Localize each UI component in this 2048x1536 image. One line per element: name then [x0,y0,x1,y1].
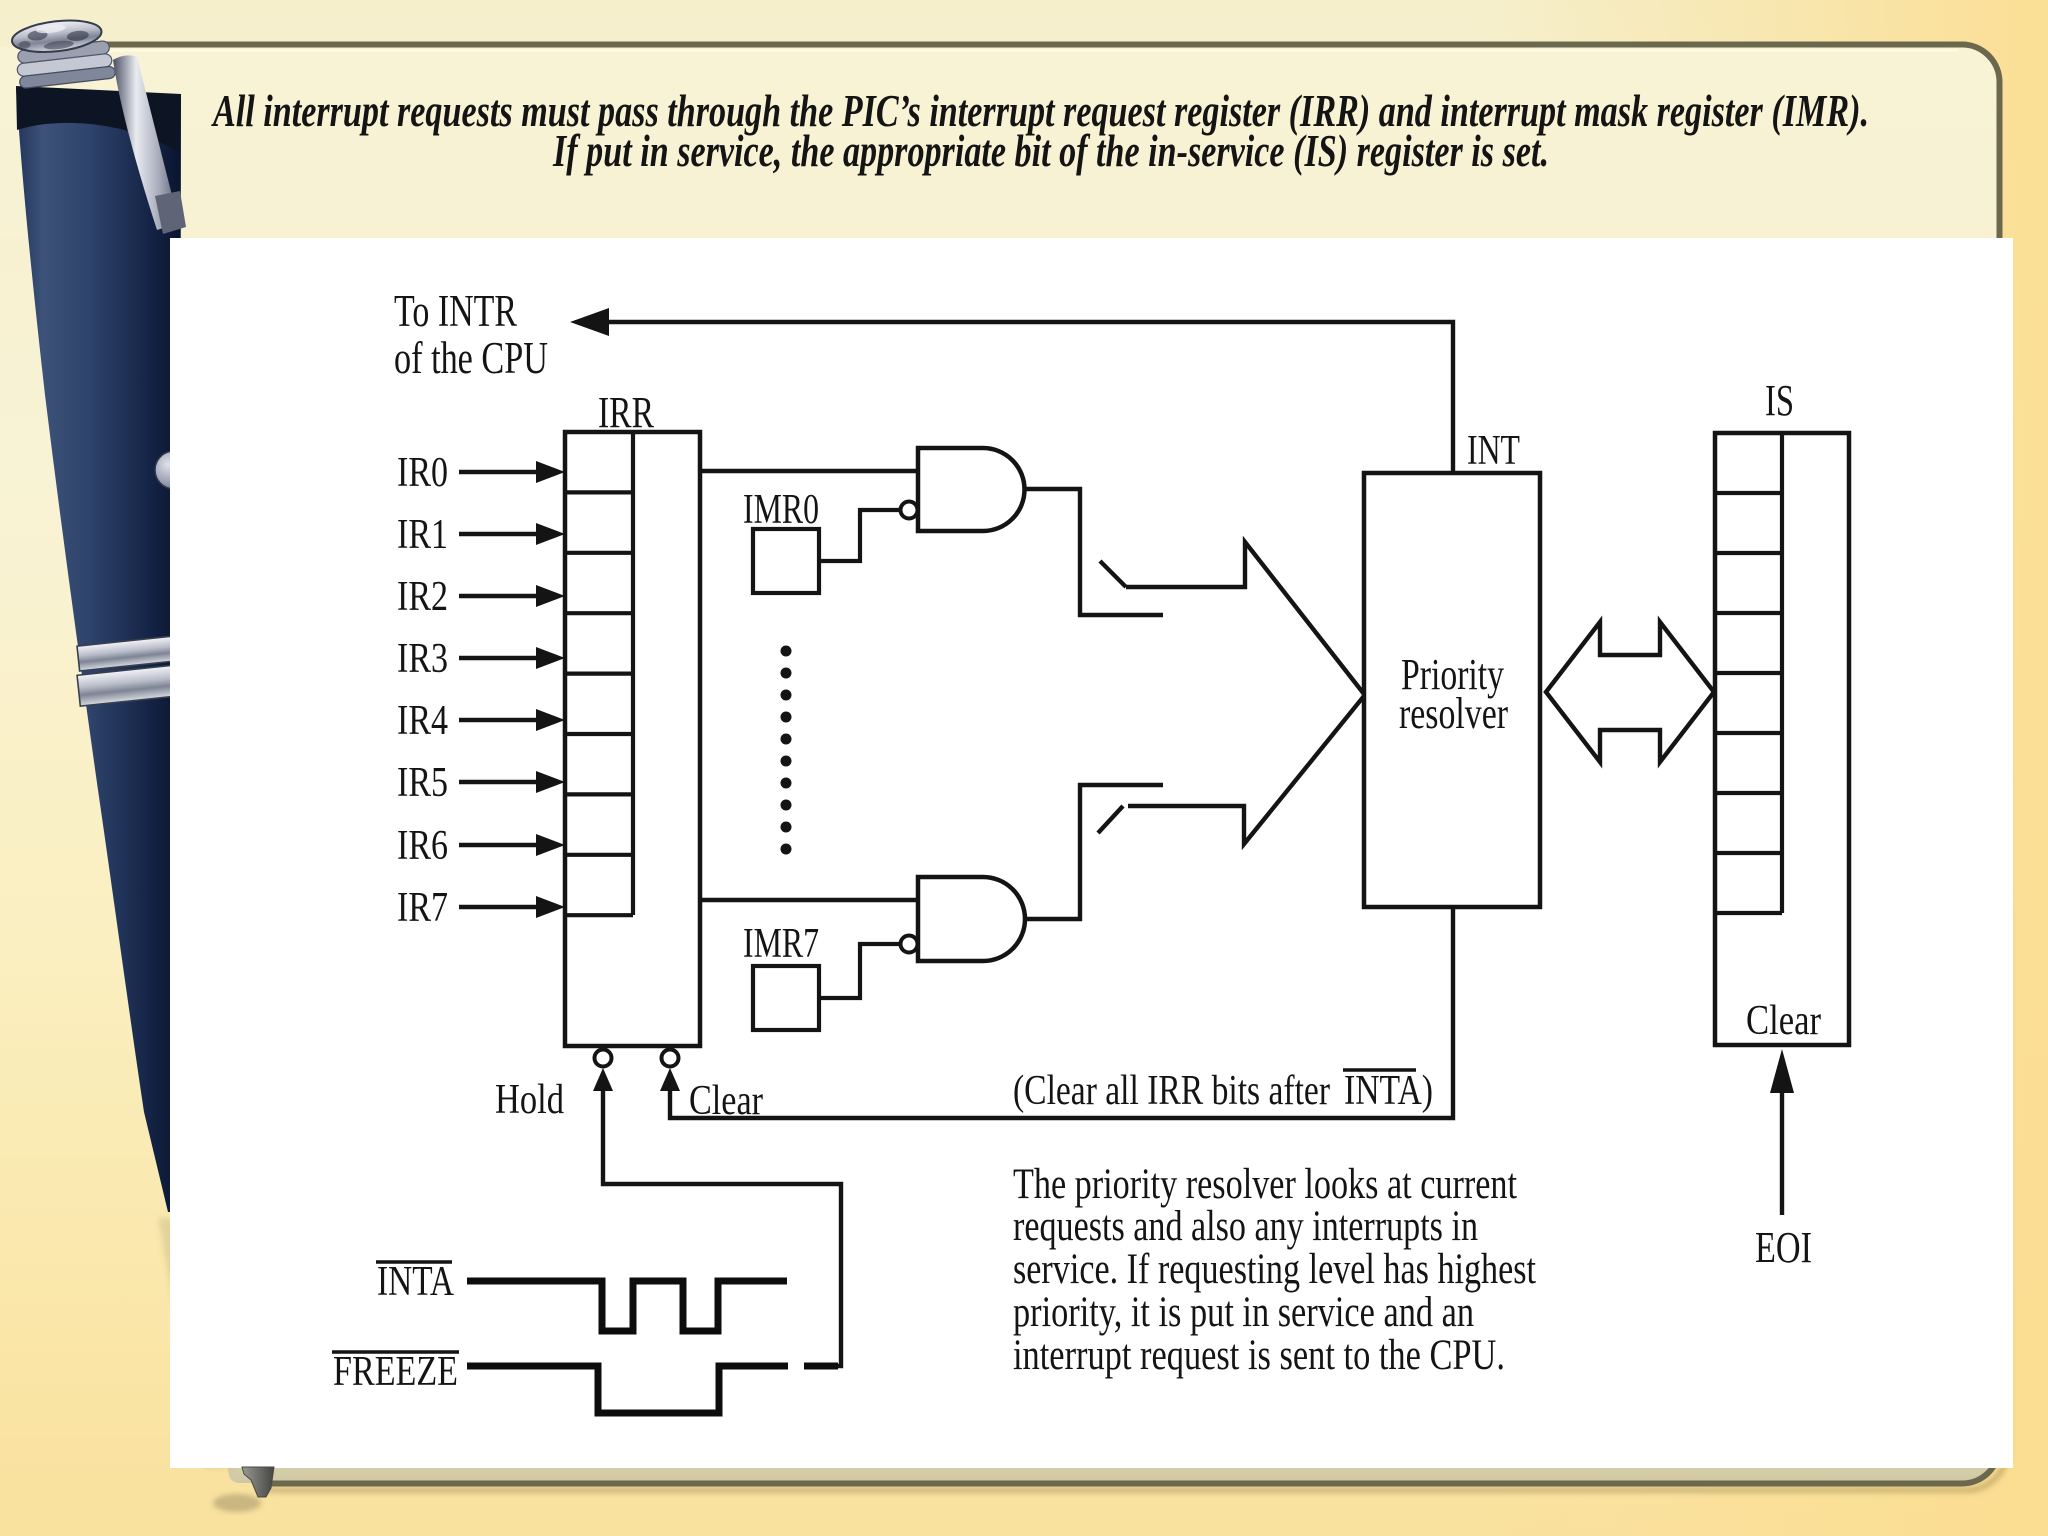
wire IR3 input [459,656,539,660]
svg-text:(Clear all IRR bits after: (Clear all IRR bits after [1013,1068,1330,1114]
AND gate U2 [918,877,1025,961]
svg-text:EOI: EOI [1755,1223,1812,1272]
white figure panel [170,238,2013,1468]
svg-text:INT: INT [1467,428,1520,474]
svg-text:of the CPU: of the CPU [394,333,548,383]
pen [10,15,193,1212]
wire IMR7 to bubble [819,944,900,998]
svg-text:If put in service, the appropr: If put in service, the appropriate bit o… [552,125,1549,176]
svg-text:FREEZE: FREEZE [333,1349,458,1395]
wire Clear feedback to resolver [660,1068,680,1091]
waveform INTA [467,1281,787,1331]
ellipsis dots [781,646,792,855]
wire IR0 input [459,470,539,474]
wire INT to CPU with arrowhead [606,322,1453,473]
svg-text:The priority resolver looks at: The priority resolver looks at current [1013,1161,1517,1208]
svg-text:To INTR: To INTR [394,286,517,336]
svg-text:IR5: IR5 [397,760,448,806]
register IRR box [565,432,700,1046]
svg-text:IR2: IR2 [397,574,448,620]
bidirectional bus arrow [1546,622,1714,762]
wire IR1 input [459,532,539,536]
pen nib [242,1467,274,1497]
svg-text:Clear: Clear [1746,998,1821,1044]
switch S2 blade [1098,806,1123,833]
wire switch S2 to resolver funnel [1128,696,1364,844]
wire IR4 input [459,718,539,722]
wire IRR to AND gate U1 [700,469,918,473]
wire U1 output to switch [1025,489,1163,615]
priority resolver box U3 [1364,473,1540,907]
wire IR7 input [459,905,539,909]
svg-text:IR4: IR4 [397,698,448,744]
wire EOI arrow [1780,1092,1784,1215]
inverter bubble U2 input [901,936,918,953]
svg-text:IR3: IR3 [397,636,448,682]
svg-text:INTA): INTA) [1344,1068,1433,1114]
inverter bubble U1 input [901,502,918,519]
wire switch S1 to resolver funnel [1126,542,1364,694]
wire FREEZE stub [804,1363,838,1370]
switch S1 blade [1100,561,1126,587]
svg-text:priority, it is put in service: priority, it is put in service and an [1013,1289,1474,1336]
waveform FREEZE [467,1366,788,1413]
wire IMR0 to bubble [819,510,900,561]
pen soft shadow [158,1218,234,1468]
node Hold circle [595,1050,612,1067]
svg-text:IMR0: IMR0 [743,487,819,533]
svg-text:IRR: IRR [598,388,654,437]
svg-text:IR6: IR6 [397,823,448,869]
svg-text:IR1: IR1 [397,512,448,558]
wire IR6 input [459,843,539,847]
svg-text:IR0: IR0 [397,450,448,496]
svg-text:resolver: resolver [1399,689,1508,738]
slide frame shadow [268,420,2007,1490]
svg-text:IS: IS [1765,376,1794,425]
register IS box [1715,433,1849,1045]
wire Hold feedback [593,1068,613,1091]
register bit IMR7 box [753,966,819,1030]
AND gate U1 [918,448,1025,531]
nib shadow [213,1494,261,1512]
wire IR5 input [459,780,539,784]
svg-text:interrupt request is sent to t: interrupt request is sent to the CPU. [1013,1332,1505,1379]
svg-text:INTA: INTA [377,1259,455,1305]
register bit IMR0 box [753,529,819,593]
node Clear circle [662,1050,679,1067]
svg-text:IR7: IR7 [397,885,448,931]
wire U2 output to switch [1025,785,1163,919]
svg-text:Hold: Hold [495,1077,564,1123]
wire IR2 input [459,594,539,598]
wire IRR to AND gate U2 [700,898,918,902]
svg-text:IMR7: IMR7 [743,921,819,967]
svg-text:service. If requesting level h: service. If requesting level has highest [1013,1246,1536,1293]
svg-text:requests and also any interrup: requests and also any interrupts in [1013,1203,1478,1250]
